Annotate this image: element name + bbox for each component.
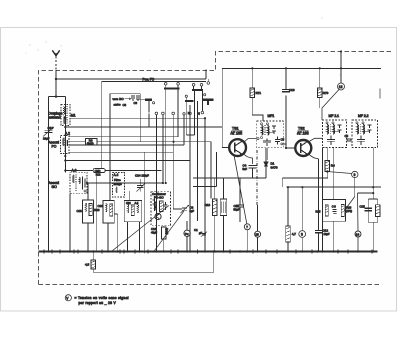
switch section S1a [164, 83, 179, 184]
svg-text:12: 12 [339, 85, 343, 89]
wire mid verticals to lower stages [149, 101, 211, 252]
label Pos. FO [143, 78, 155, 82]
svg-text:220pF: 220pF [142, 174, 150, 178]
svg-text:5nF: 5nF [243, 167, 248, 171]
svg-text:autre: autre [114, 103, 121, 107]
page margin mark [379, 89, 381, 99]
terminal 3 (circled) [299, 187, 306, 251]
wire R6 left lead [69, 141, 86, 143]
svg-text:R10: R10 [94, 208, 100, 212]
svg-text:par rapport au _ 28 V: par rapport au _ 28 V [79, 301, 117, 305]
svg-text:A.4: A.4 [114, 173, 119, 177]
capacitor C12 [315, 220, 330, 252]
coupling box "Couplage antenne" [48, 112, 62, 120]
wire MF2.1 left pin to ground [322, 148, 324, 252]
junction dots audio rail [287, 186, 374, 188]
svg-text:0A79: 0A79 [271, 166, 278, 170]
wire TS1 collector to MF1 [244, 139, 257, 143]
svg-text:C 8: C 8 [332, 205, 337, 209]
oscillator injection diagonal b [153, 211, 184, 253]
capacitor C9a [132, 94, 138, 105]
svg-text:C22: C22 [126, 202, 131, 205]
dashed chassis border bottom [39, 284, 382, 286]
terminal 16 (circled) [355, 193, 361, 251]
wire cross horizontal y170 [65, 170, 161, 172]
IF filter can C16 [98, 201, 118, 252]
resistor R4 [325, 148, 335, 172]
capacitor C2 on feed wire [201, 232, 207, 237]
svg-text:antenne: antenne [49, 115, 61, 119]
wire C15 loop ground [372, 222, 374, 251]
oscillator injection diagonal a [111, 206, 169, 252]
wire y178 return [193, 177, 266, 179]
wire contact drop x184 [183, 115, 185, 145]
wire cross horizontal y118 [70, 117, 205, 119]
IF filter can C22 A.5 [124, 191, 142, 251]
terminal 12 (circled) [322, 52, 345, 121]
capacitor C1 label [194, 228, 202, 235]
switch shield box [110, 94, 140, 122]
svg-text:C9: C9 [134, 101, 138, 105]
wire cross horizontal y160 [65, 160, 190, 162]
svg-text:9: 9 [354, 173, 356, 177]
wire detector to terminal 9 [345, 197, 355, 211]
svg-text:PO: PO [52, 145, 57, 149]
IF filter can C18 [77, 183, 100, 252]
image filter A.4 (dashed box) [113, 173, 125, 198]
terminal 9 (circled) [327, 171, 358, 196]
svg-text:= Tension en volts sans si: = Tension en volts sans signal [75, 296, 129, 300]
fuse resistor 4.5 return loop [85, 252, 214, 273]
terminal 15 (circled) [255, 205, 261, 252]
note: measurement legend [65, 295, 129, 305]
wire cross horizontal y136.8 [69, 136, 178, 138]
AGC dash-dot line [256, 150, 258, 205]
IF transformer MF2.2 [352, 114, 378, 148]
resistor R70 [317, 68, 328, 108]
svg-text:R18: R18 [205, 203, 211, 207]
wire MF1 out to TS2 base [283, 144, 296, 148]
svg-text:MF 2.1: MF 2.1 [329, 114, 340, 118]
svg-text:PO-GO: PO-GO [154, 195, 164, 199]
svg-text:C4: C4 [243, 164, 247, 168]
wire loop feed y193 [358, 192, 374, 194]
switch wiper S2a [136, 100, 155, 113]
resistor R17 [286, 187, 297, 251]
switch contact row [155, 105, 204, 115]
capacitor C4 [243, 164, 257, 179]
svg-text:N: N [198, 112, 200, 116]
svg-text:C10: C10 [151, 227, 157, 231]
capacitor C20 [234, 178, 245, 222]
svg-text:GO: GO [52, 185, 58, 189]
svg-text:C5: C5 [281, 138, 285, 142]
switch section S1b [192, 84, 203, 112]
wire TS1 emitter [243, 154, 252, 165]
capacitor C9b [137, 95, 139, 101]
transistor TS2 [295, 127, 311, 157]
wire cross horizontal y141.7 [97, 141, 211, 143]
svg-text:image: image [114, 182, 123, 186]
svg-text:C18: C18 [77, 209, 83, 213]
svg-text:50μF: 50μF [234, 208, 240, 212]
wire TS2 emitter [309, 154, 319, 159]
label Accord GO [49, 181, 60, 189]
svg-text:MF1: MF1 [268, 114, 275, 118]
svg-text:vers BO: vers BO [113, 97, 125, 101]
node R4 bottom [326, 170, 328, 172]
svg-text:A.2: A.2 [65, 132, 70, 136]
svg-text:C15: C15 [360, 205, 366, 209]
wire TS2 collector [308, 138, 322, 142]
wire MF2.1 pin to detector [333, 148, 335, 252]
label Accord PO [49, 141, 60, 149]
svg-text:Pos. FO: Pos. FO [143, 78, 155, 82]
svg-text:C10: C10 [48, 126, 54, 130]
resistor R6 boxed label [86, 139, 98, 146]
terminal 7 (circled) [244, 224, 250, 252]
oscillator module (dashed box) [151, 192, 171, 226]
tuned circuit A.3 (dashed box with coils) [70, 169, 87, 194]
svg-text:R15: R15 [316, 210, 321, 214]
IF transformer MF2.1 [322, 114, 346, 148]
antenna [52, 50, 59, 96]
svg-text:TS1: TS1 [232, 127, 239, 131]
svg-text:5μF: 5μF [190, 209, 195, 213]
trimmer C3 [181, 205, 195, 213]
svg-text:40μF: 40μF [151, 230, 157, 234]
capacitor C10b label [151, 227, 157, 234]
svg-text:AF 166: AF 166 [297, 131, 309, 135]
detector module box [316, 200, 353, 222]
wire trimmer feed [173, 208, 182, 210]
svg-text:C3: C3 [190, 206, 194, 210]
label vers BO with arrow [113, 97, 132, 107]
svg-text:C24: C24 [135, 174, 141, 178]
diode D1 [264, 148, 278, 178]
electrolytic can C17 [220, 178, 227, 252]
wire audio rail y187 [287, 186, 381, 188]
wire y186 stub [193, 152, 217, 186]
switch wiper S2b [185, 94, 213, 116]
svg-text:A.5: A.5 [135, 202, 139, 205]
resistor R71 [250, 68, 263, 121]
svg-text:15: 15 [255, 233, 259, 237]
contact terminal x184 [183, 113, 185, 115]
trimmer capacitor C10 [43, 126, 54, 141]
svg-text:R71: R71 [256, 91, 262, 95]
wire left tank rails [49, 97, 66, 252]
wire cross horizontal y127 [65, 126, 222, 128]
resistor R20 [375, 205, 380, 223]
wire right rail [377, 199, 379, 205]
svg-text:AF 195: AF 195 [231, 131, 243, 135]
IF transformer MF1 [257, 114, 284, 148]
svg-text:R70: R70 [323, 91, 329, 95]
svg-text:3: 3 [301, 233, 303, 237]
svg-text:MF 2.2: MF 2.2 [358, 114, 369, 118]
svg-text:C1: C1 [194, 228, 198, 232]
wire top-right rail [222, 67, 381, 69]
junction dots left rails [64, 117, 206, 184]
terminal node at border step [207, 82, 210, 85]
capacitor C19 [282, 68, 295, 148]
svg-text:R4: R4 [331, 164, 335, 168]
pickup terminal Pu (circled) [184, 221, 190, 252]
boxed label OND B12 [93, 169, 105, 252]
svg-text:TS2: TS2 [298, 127, 305, 131]
wire TS1 AGC diagonal [234, 155, 247, 224]
svg-text:16: 16 [356, 232, 360, 236]
resistor R19 [205, 178, 218, 252]
svg-text:C12: C12 [323, 229, 329, 233]
svg-text:4,5: 4,5 [85, 263, 90, 267]
wire top-left rail [56, 70, 206, 80]
resistor R13 boxed vertical [162, 226, 169, 252]
transistor TS1 [229, 127, 246, 157]
junction dots top rail [251, 50, 342, 69]
ground bus [39, 250, 378, 254]
svg-text:C19: C19 [289, 88, 295, 92]
wire cross horizontal y145 [69, 144, 184, 146]
svg-text:(470): (470) [346, 209, 352, 213]
svg-text:C16: C16 [98, 204, 104, 208]
dashed chassis border left/top [39, 52, 394, 285]
wire cross horizontal y152 [69, 151, 174, 153]
wire MF1 bottom drop [266, 148, 268, 160]
wire osc feed vertical [143, 152, 145, 251]
tuned circuit A.2 (dashed box with coils) [61, 132, 71, 154]
wire TS1 base [222, 68, 230, 147]
wire nested loop b [186, 91, 194, 135]
scan speckles [26, 18, 341, 76]
svg-text:μF: μF [199, 231, 202, 235]
coil L1 with core (dashed box) [61, 105, 76, 126]
capacitor C5 [275, 137, 284, 145]
svg-text:M1: M1 [71, 114, 76, 118]
RC network C15 [360, 199, 378, 222]
svg-text:10μF: 10μF [324, 232, 330, 236]
svg-text:OND: OND [95, 169, 101, 173]
svg-text:(330): (330) [164, 228, 168, 235]
capacitor C24 label [135, 174, 149, 192]
wire switch bus [102, 82, 206, 169]
svg-text:C8: C8 [123, 103, 127, 107]
svg-text:C6: C6 [345, 134, 349, 138]
svg-text:Pu: Pu [185, 232, 189, 236]
svg-text:4,7: 4,7 [292, 232, 297, 236]
wire cross horizontal y183 [87, 182, 163, 184]
wire AVC return y178 [282, 172, 328, 188]
coupling capacitor C6 [345, 134, 353, 142]
wire MF2.2 output drop [372, 148, 374, 200]
